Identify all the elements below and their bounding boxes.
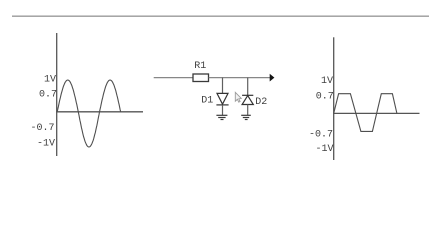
- svg-text:0.7: 0.7: [316, 91, 334, 102]
- mouse cursor: [235, 92, 241, 102]
- wire input to R1: [154, 77, 193, 79]
- left plot x-axis: [56, 111, 143, 113]
- input sine waveform: [57, 80, 120, 147]
- wire node A to D1: [222, 78, 224, 94]
- svg-text:-0.7: -0.7: [309, 129, 333, 140]
- svg-text:R1: R1: [194, 61, 206, 72]
- ground 1: [216, 115, 227, 119]
- wire D1 to ground: [222, 105, 224, 115]
- separator line: [12, 15, 429, 17]
- diode D1: [216, 93, 228, 105]
- svg-text:D2: D2: [255, 97, 267, 108]
- svg-text:0.7: 0.7: [39, 89, 57, 100]
- svg-text:1V: 1V: [44, 75, 56, 86]
- right plot y-axis: [333, 37, 335, 160]
- right plot x-axis: [333, 112, 419, 114]
- svg-text:-1V: -1V: [315, 144, 333, 155]
- resistor R1: [193, 74, 209, 82]
- svg-text:-0.7: -0.7: [30, 123, 54, 134]
- left plot y-axis: [56, 33, 58, 156]
- ground 2: [241, 115, 251, 119]
- svg-text:D1: D1: [201, 96, 213, 107]
- wire node B to D2: [247, 78, 249, 96]
- svg-text:1V: 1V: [321, 76, 333, 87]
- output arrowhead: [270, 74, 275, 82]
- diode D2: [242, 95, 253, 104]
- wire R1 to output arrow: [209, 77, 270, 79]
- svg-text:-1V: -1V: [37, 138, 55, 149]
- wire D2 to ground: [247, 105, 249, 116]
- output clipped waveform: [334, 94, 397, 132]
